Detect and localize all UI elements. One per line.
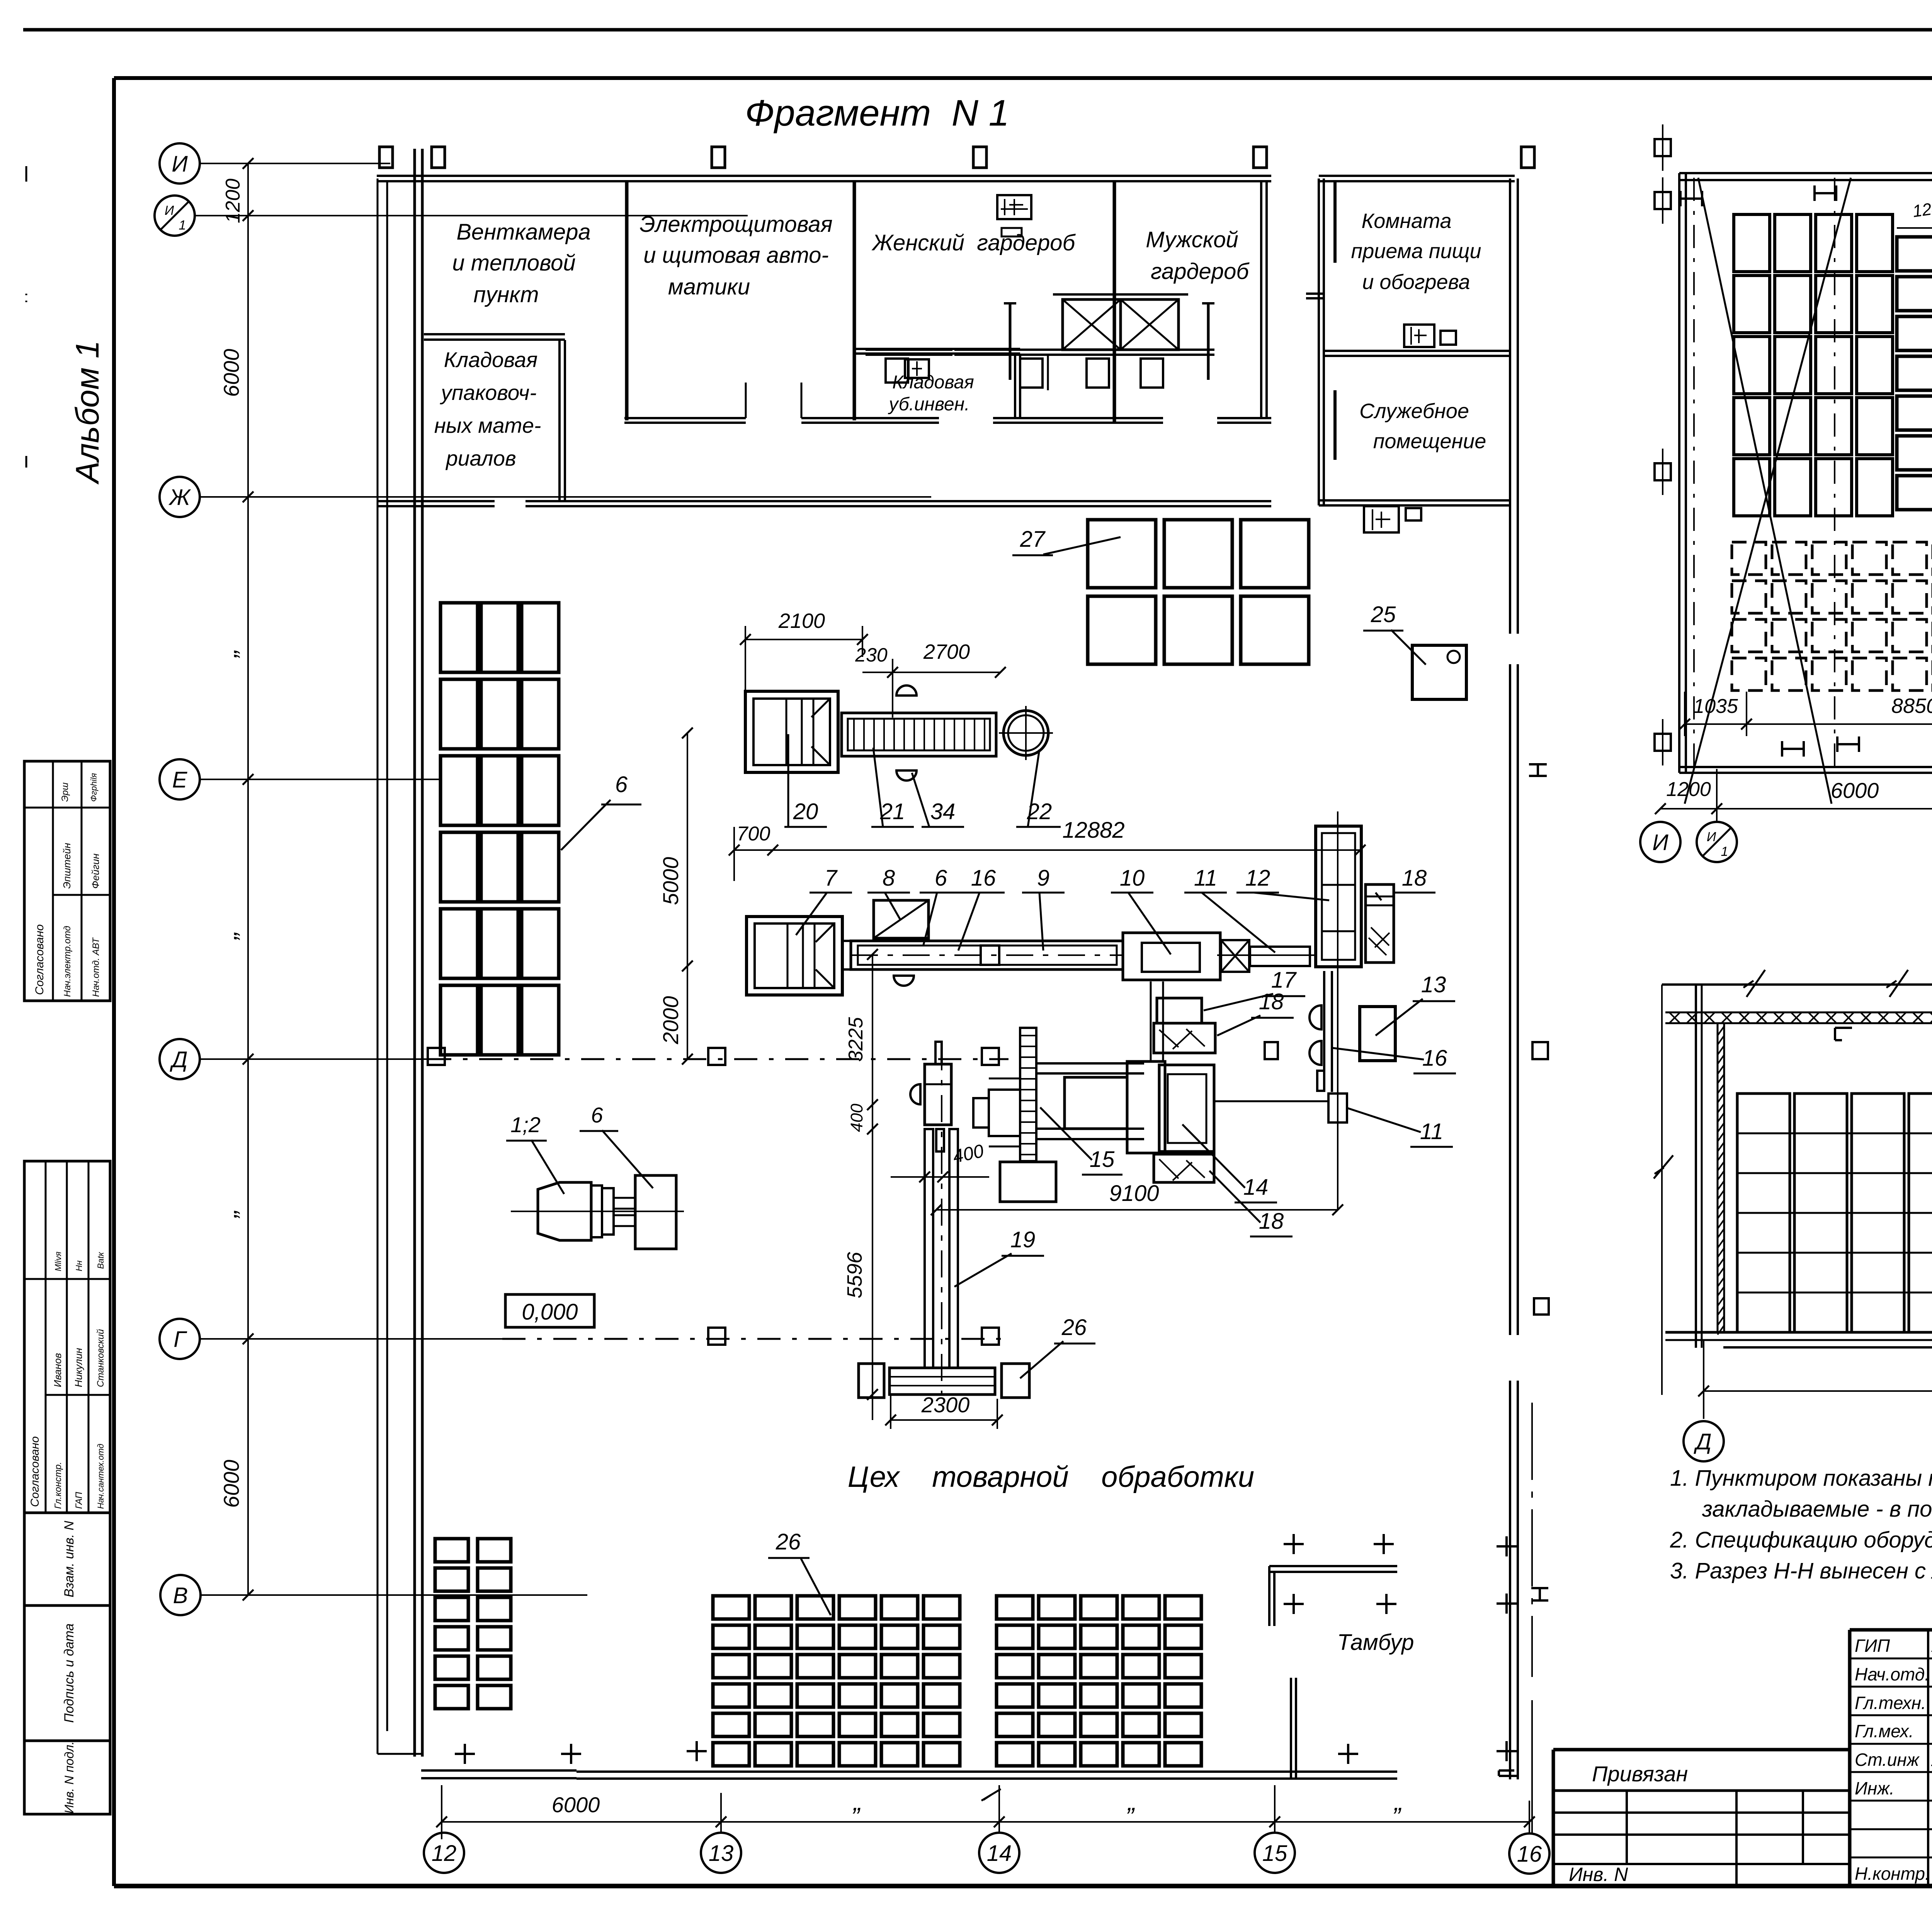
svg-text:Нач.сантех.отд: Нач.сантех.отд: [96, 1444, 105, 1509]
svg-text:5000: 5000: [658, 857, 683, 905]
svg-text:Венткамера: Венткамера: [456, 219, 590, 245]
svg-text:12882: 12882: [1062, 818, 1124, 843]
svg-text:6000: 6000: [552, 1793, 600, 1817]
D axis square right: [1265, 1042, 1278, 1059]
svg-text:Фрагмент N 1: Фрагмент N 1: [745, 92, 1009, 134]
box 13: [1360, 1007, 1395, 1061]
hatched box 18 right of 12: [1366, 884, 1394, 963]
svg-text:Согласовано: Согласовано: [33, 924, 46, 995]
svg-text:Гл.констр.: Гл.констр.: [53, 1462, 63, 1509]
svg-text:16: 16: [1422, 1046, 1447, 1071]
svg-text:12: 12: [432, 1841, 457, 1866]
circle 22: [1003, 711, 1048, 755]
bottom wall of top rooms with door gaps: [624, 417, 746, 419]
svg-text:Тамбур: Тамбур: [1337, 1630, 1414, 1655]
hall bottom-left wall step: [378, 1753, 422, 1755]
svg-text:400: 400: [951, 1141, 986, 1167]
dim 3225 / 400: [872, 954, 873, 1129]
fragment2 solid grid left group 4x5: [1734, 214, 1770, 272]
wardrobe sink unit on partition: [997, 195, 1031, 219]
svg-text:помещение: помещение: [1373, 430, 1486, 453]
svg-text:5596: 5596: [843, 1252, 866, 1298]
axis В: [160, 1575, 201, 1615]
bottom pulley box: [1000, 1162, 1056, 1202]
svg-text:11: 11: [1194, 866, 1217, 891]
svg-text:9100: 9100: [1109, 1181, 1159, 1206]
svg-text:Альбом 1: Альбом 1: [69, 340, 105, 485]
svg-text:Электрощитовая: Электрощитовая: [639, 212, 832, 237]
kladovaya ub.inven walls: [854, 348, 1020, 350]
fragment2 outer walls: [1679, 172, 1932, 174]
svg-text:„: „: [213, 1209, 242, 1219]
section left wall break: [1661, 985, 1663, 1395]
svg-text:„: „: [1393, 1787, 1403, 1816]
svg-text:6: 6: [591, 1103, 603, 1127]
svg-text:закладываемые - в последнюю.: закладываемые - в последнюю.: [1702, 1497, 1932, 1522]
svg-text:Мlivя: Мlivя: [53, 1252, 63, 1271]
svg-text:1035: 1035: [1693, 695, 1738, 718]
svg-text:Batк: Batк: [96, 1252, 105, 1271]
fragment2 bottom dimension line: [1660, 808, 1932, 810]
svg-text:1200: 1200: [222, 179, 244, 223]
svg-text:Нн: Нн: [74, 1260, 84, 1271]
box 17 small top: [1157, 998, 1202, 1023]
svg-text:15: 15: [1090, 1147, 1115, 1172]
svg-text:26: 26: [776, 1529, 801, 1554]
axis Д: [160, 1039, 200, 1079]
svg-text:Г: Г: [173, 1327, 187, 1352]
bottom axis circles 12-16: [424, 1833, 464, 1873]
svg-text:9: 9: [1037, 866, 1049, 891]
svg-text:И: И: [165, 203, 174, 218]
dim 230 / 2700: [862, 672, 1000, 673]
svg-text:Никулин: Никулин: [73, 1348, 84, 1387]
dim 2100 top: [745, 639, 862, 640]
svg-text:приема пищи: приема пищи: [1351, 240, 1481, 263]
svg-text:матики: матики: [668, 274, 750, 299]
conveyor 9: [851, 941, 1123, 969]
svg-text:230: 230: [855, 644, 888, 666]
tambur walls: [1269, 1565, 1397, 1567]
svg-text:Станковский: Станковский: [95, 1329, 106, 1387]
ceiling hatched band: [1665, 1012, 1932, 1014]
G axis squares: [708, 1328, 725, 1345]
svg-text:1240: 1240: [1912, 197, 1932, 221]
staff table: [1848, 1630, 1852, 1886]
svg-text:Е: Е: [172, 767, 188, 793]
top exterior wall: [377, 175, 1271, 177]
0,000 level box: [505, 1294, 594, 1327]
vertical conveyor 19: [925, 1129, 933, 1368]
svg-text:8: 8: [883, 866, 895, 891]
fragment2 inner dim line (1035/8850/600/7535/300): [1685, 723, 1932, 725]
svg-text:Инж.: Инж.: [1855, 1778, 1895, 1798]
pallet grid bottom-right 5x6: [997, 1596, 1033, 1619]
vertical column below 12: [1323, 971, 1325, 1092]
machine 20 box: [745, 691, 838, 772]
section top line: [1662, 983, 1932, 986]
svg-text:Женский гардероб: Женский гардероб: [871, 230, 1076, 255]
svg-text:16: 16: [971, 866, 996, 891]
section left wall hatched: [1695, 985, 1697, 1348]
svg-text:2300: 2300: [921, 1393, 970, 1417]
section bottom dim 19200: [1704, 1390, 1932, 1392]
svg-text:Фгphilя: Фгphilя: [89, 773, 99, 802]
pallet grid bottom-left 2x6: [435, 1539, 468, 1562]
svg-text:25: 25: [1371, 602, 1396, 627]
sink symbol kladovaya: [905, 359, 929, 378]
svg-text:Подпись и дата: Подпись и дата: [62, 1623, 77, 1723]
small box bottom of column: [1328, 1094, 1347, 1122]
svg-text:6000: 6000: [1831, 778, 1879, 803]
section container stacks group1: [1737, 1094, 1790, 1332]
svg-text:6000: 6000: [219, 349, 243, 397]
svg-text:Гл.мех.: Гл.мех.: [1855, 1721, 1914, 1741]
axis Е: [160, 759, 200, 799]
svg-text:Привязан: Привязан: [1592, 1762, 1688, 1786]
svg-text:Н.контр.: Н.контр.: [1855, 1864, 1930, 1884]
svg-text:3225: 3225: [845, 1017, 867, 1062]
hall bottom wall: [577, 1770, 1397, 1773]
svg-text:2100: 2100: [778, 609, 825, 633]
svg-text:Ст.инж: Ст.инж: [1855, 1750, 1920, 1770]
svg-text:19: 19: [1010, 1227, 1036, 1252]
svg-text:„: „: [1127, 1787, 1136, 1816]
svg-text:2. Спецификацию оборудования с: 2. Спецификацию оборудования смотри лист…: [1670, 1527, 1932, 1553]
left flange steps: [989, 1078, 1020, 1080]
svg-text:Ж: Ж: [168, 485, 191, 510]
axis Г: [160, 1319, 200, 1359]
bottom hatch 18 box: [1154, 1154, 1214, 1182]
svg-text:3. Разрез Н-Н вынесен с листа: 3. Разрез Н-Н вынесен с листа ТХ-3.: [1670, 1558, 1932, 1583]
axis И: [160, 143, 200, 184]
left margin bottom cells: [24, 1513, 110, 1605]
svg-text:„: „: [213, 931, 242, 940]
svg-text:Д: Д: [170, 1047, 188, 1072]
dashed axis through cluster (D axis squares): [428, 1048, 445, 1065]
left exterior wall: [377, 179, 379, 1754]
hall thick left wall: [413, 149, 416, 1757]
fragment2 solid grid middle group 4x7: [1897, 237, 1932, 271]
svg-text:2700: 2700: [923, 640, 970, 663]
dim 2300: [891, 1419, 997, 1421]
machine 1;2 with 6: [538, 1182, 591, 1240]
svg-text:Эпштейн: Эпштейн: [61, 843, 73, 889]
bump left of elevator head: [910, 1084, 920, 1104]
door jamb marks right rooms: [1306, 293, 1324, 295]
svg-text:Мужской: Мужской: [1146, 227, 1238, 252]
coupling X: [1221, 940, 1249, 972]
sink icon sluzhebnoe bottom: [1364, 506, 1399, 532]
svg-text:Д: Д: [1694, 1429, 1712, 1454]
break mark on dim line: [981, 1789, 1001, 1801]
svg-text:Взам. инв. N: Взам. инв. N: [62, 1521, 77, 1597]
sheet top edge line: [23, 28, 1932, 32]
svg-text:6000: 6000: [219, 1460, 243, 1508]
dim 9100: [936, 1209, 1338, 1211]
right rooms block walls: [1318, 179, 1320, 505]
svg-text:7: 7: [825, 866, 838, 891]
left vertical dimension line: [247, 163, 249, 1595]
axis16 thin line: [1531, 1403, 1533, 1677]
svg-text:1. Пунктиром показаны поддоны,: 1. Пунктиром показаны поддоны, реализуем…: [1670, 1466, 1932, 1491]
axis Ж: [160, 477, 200, 517]
svg-text:уб.инвен.: уб.инвен.: [888, 394, 970, 415]
hatch 18 under 17: [1154, 1023, 1215, 1053]
svg-text:ГИП: ГИП: [1855, 1636, 1890, 1656]
svg-text:6: 6: [615, 772, 628, 797]
conveyor 21: [842, 713, 996, 756]
elevator head box: [925, 1064, 951, 1125]
svg-text:18: 18: [1402, 866, 1427, 891]
svg-text:и обогрева: и обогрева: [1362, 270, 1470, 294]
svg-text:11: 11: [1420, 1119, 1443, 1144]
title block outer: [1553, 1748, 1850, 1752]
long wall under rooms: [378, 500, 495, 502]
fragment2 diagonals: [1685, 178, 1851, 804]
column square on D axis right: [1532, 1042, 1548, 1059]
door swing marks top rooms: [745, 383, 747, 418]
svg-text:упаковоч-: упаковоч-: [439, 381, 536, 405]
svg-text:Нач.отд.: Нач.отд.: [1855, 1664, 1930, 1684]
svg-text:ГАП: ГАП: [74, 1492, 84, 1509]
svg-text:1200: 1200: [1666, 778, 1711, 801]
pallet grid bottom-middle 6x6: [713, 1596, 749, 1619]
svg-text:14: 14: [1243, 1175, 1269, 1200]
axis И/1: [155, 196, 195, 236]
svg-text:8850: 8850: [1891, 694, 1932, 718]
svg-text:Служебное: Служебное: [1359, 400, 1469, 423]
top row column rectangles: [379, 147, 393, 168]
right wall bottom L-foot: [1499, 1769, 1514, 1772]
fragment2 top labels 1240/100: [1897, 227, 1932, 229]
main drawing frame: [114, 76, 1932, 80]
svg-text:И: И: [1652, 830, 1668, 855]
svg-text:Инв. N подл.: Инв. N подл.: [62, 1741, 76, 1813]
section floor lines: [1665, 1331, 1932, 1334]
svg-text:И: И: [1707, 830, 1716, 844]
bumps 34: [896, 685, 917, 696]
svg-text:26: 26: [1061, 1315, 1087, 1340]
C hooks under ceiling: [1835, 1027, 1852, 1029]
bottom dimension line fragment1: [442, 1821, 1529, 1823]
small notch left of column: [1317, 1071, 1324, 1091]
svg-text:и тепловой: и тепловой: [452, 250, 575, 276]
sink icon sluzhebnoe partition: [1404, 325, 1434, 347]
svg-text:400: 400: [847, 1104, 866, 1132]
svg-text:Нач.электр.отд: Нач.электр.отд: [62, 926, 73, 997]
roof break marks: [1747, 970, 1765, 997]
crane I-beam symbols: [1679, 191, 1682, 206]
svg-text:И: И: [172, 151, 188, 177]
feeder box 8: [874, 900, 929, 938]
gear rack 15 toothed column: [1020, 1028, 1036, 1161]
svg-text:и щитовая авто-: и щитовая авто-: [643, 243, 828, 268]
svg-text:Инв. N: Инв. N: [1569, 1864, 1628, 1885]
svg-text:В: В: [173, 1583, 188, 1608]
svg-text:15: 15: [1262, 1841, 1287, 1866]
box 25: [1412, 645, 1466, 699]
grid 27 (3x2): [1088, 520, 1156, 588]
dim 5000 / 700 / 12882: [687, 733, 688, 1059]
svg-text:2000: 2000: [658, 996, 683, 1045]
central machine cluster 14: [1065, 1077, 1127, 1129]
svg-text:20: 20: [793, 799, 818, 824]
I-beam symbol right of wall: [1529, 763, 1547, 765]
fragment2 bottom axis circles: [1640, 822, 1680, 862]
connector 7 to conveyor: [842, 940, 851, 942]
svg-text:Кладовая: Кладовая: [444, 348, 537, 372]
svg-text:1: 1: [179, 218, 186, 233]
svg-text:ных мате-: ных мате-: [434, 413, 541, 437]
svg-text:12: 12: [1245, 866, 1270, 891]
small rect near G axis right: [1534, 1298, 1549, 1315]
svg-text:1: 1: [1721, 844, 1728, 859]
hall right wall: [1509, 179, 1511, 634]
svg-text:27: 27: [1020, 527, 1046, 552]
svg-text:Нач.отд. АВТ: Нач.отд. АВТ: [91, 937, 101, 997]
kladovaya upakovochnyh room: [424, 333, 565, 335]
axis lines fragment1: [200, 163, 390, 164]
svg-text:Комната: Комната: [1361, 209, 1451, 233]
svg-text:гардероб: гардероб: [1151, 259, 1250, 284]
svg-text:13: 13: [709, 1841, 734, 1866]
box 26 at conveyor: [1002, 1364, 1029, 1398]
tall machine 12: [1316, 826, 1361, 967]
svg-text:18: 18: [1259, 989, 1284, 1014]
svg-text:0,000: 0,000: [522, 1299, 578, 1325]
inner vertical dashdot lines left: [1693, 178, 1695, 769]
svg-text:Согласовано: Согласовано: [29, 1436, 41, 1507]
svg-text:16: 16: [1517, 1842, 1542, 1867]
svg-text:18: 18: [1259, 1209, 1284, 1234]
svg-text:1;2: 1;2: [510, 1112, 541, 1137]
svg-text:пункт: пункт: [473, 282, 539, 307]
svg-text:14: 14: [987, 1841, 1012, 1866]
section axis circles: [1684, 1421, 1724, 1461]
svg-text:Цех товарной обработки: Цех товарной обработки: [848, 1461, 1254, 1493]
bump near feeder: [894, 976, 914, 986]
title block small rows left: [1553, 1811, 1850, 1814]
svg-text:Иванов: Иванов: [52, 1353, 63, 1387]
plus column marks bottom: [1284, 1543, 1304, 1545]
wall Venkamera/Elektro partition: [625, 182, 629, 420]
left sheet edge marks: [26, 166, 27, 182]
dim 5596: [872, 1129, 873, 1420]
shaft cluster to column: [1215, 1100, 1328, 1102]
svg-text:34: 34: [930, 799, 956, 824]
svg-text:риалов: риалов: [445, 446, 516, 470]
svg-text:10: 10: [1120, 866, 1145, 891]
wall Elektro/Zhensky partition: [853, 182, 856, 420]
left margin stamp table group 1: [24, 761, 110, 1001]
svg-text:21: 21: [880, 799, 905, 824]
X cross tables muzhskoy: [1063, 299, 1121, 350]
svg-text:Фейгин: Фейгин: [90, 854, 101, 889]
benches zhensky: [866, 349, 952, 351]
machine 7 box: [747, 917, 842, 995]
fragment2 dashed grids: [1732, 542, 1766, 575]
small col markers fragment2 left: [1655, 139, 1671, 156]
svg-text:6: 6: [935, 866, 947, 891]
svg-text:13: 13: [1421, 972, 1446, 997]
bottom conveyor of 19: [889, 1368, 995, 1395]
I-beam at bottom right wall: [1531, 1587, 1548, 1589]
pallet grid 6 (left, 3x6): [440, 603, 478, 672]
segment 11 top: [1250, 947, 1310, 966]
svg-text:Эрш: Эрш: [60, 782, 70, 802]
wall Zhensky/Muzhskoy partition: [1113, 182, 1116, 423]
benches muzhskoy: [954, 349, 1214, 351]
left margin stamp table group 2: [24, 1161, 110, 1513]
svg-text:„: „: [852, 1787, 862, 1816]
machine 10: [1123, 933, 1220, 980]
svg-text:Гл.техн.: Гл.техн.: [1855, 1693, 1926, 1713]
right end wall of top rooms block: [1260, 182, 1262, 418]
bumps left of column: [1310, 1005, 1321, 1029]
svg-text:„: „: [213, 649, 242, 658]
svg-text:700: 700: [737, 823, 770, 845]
